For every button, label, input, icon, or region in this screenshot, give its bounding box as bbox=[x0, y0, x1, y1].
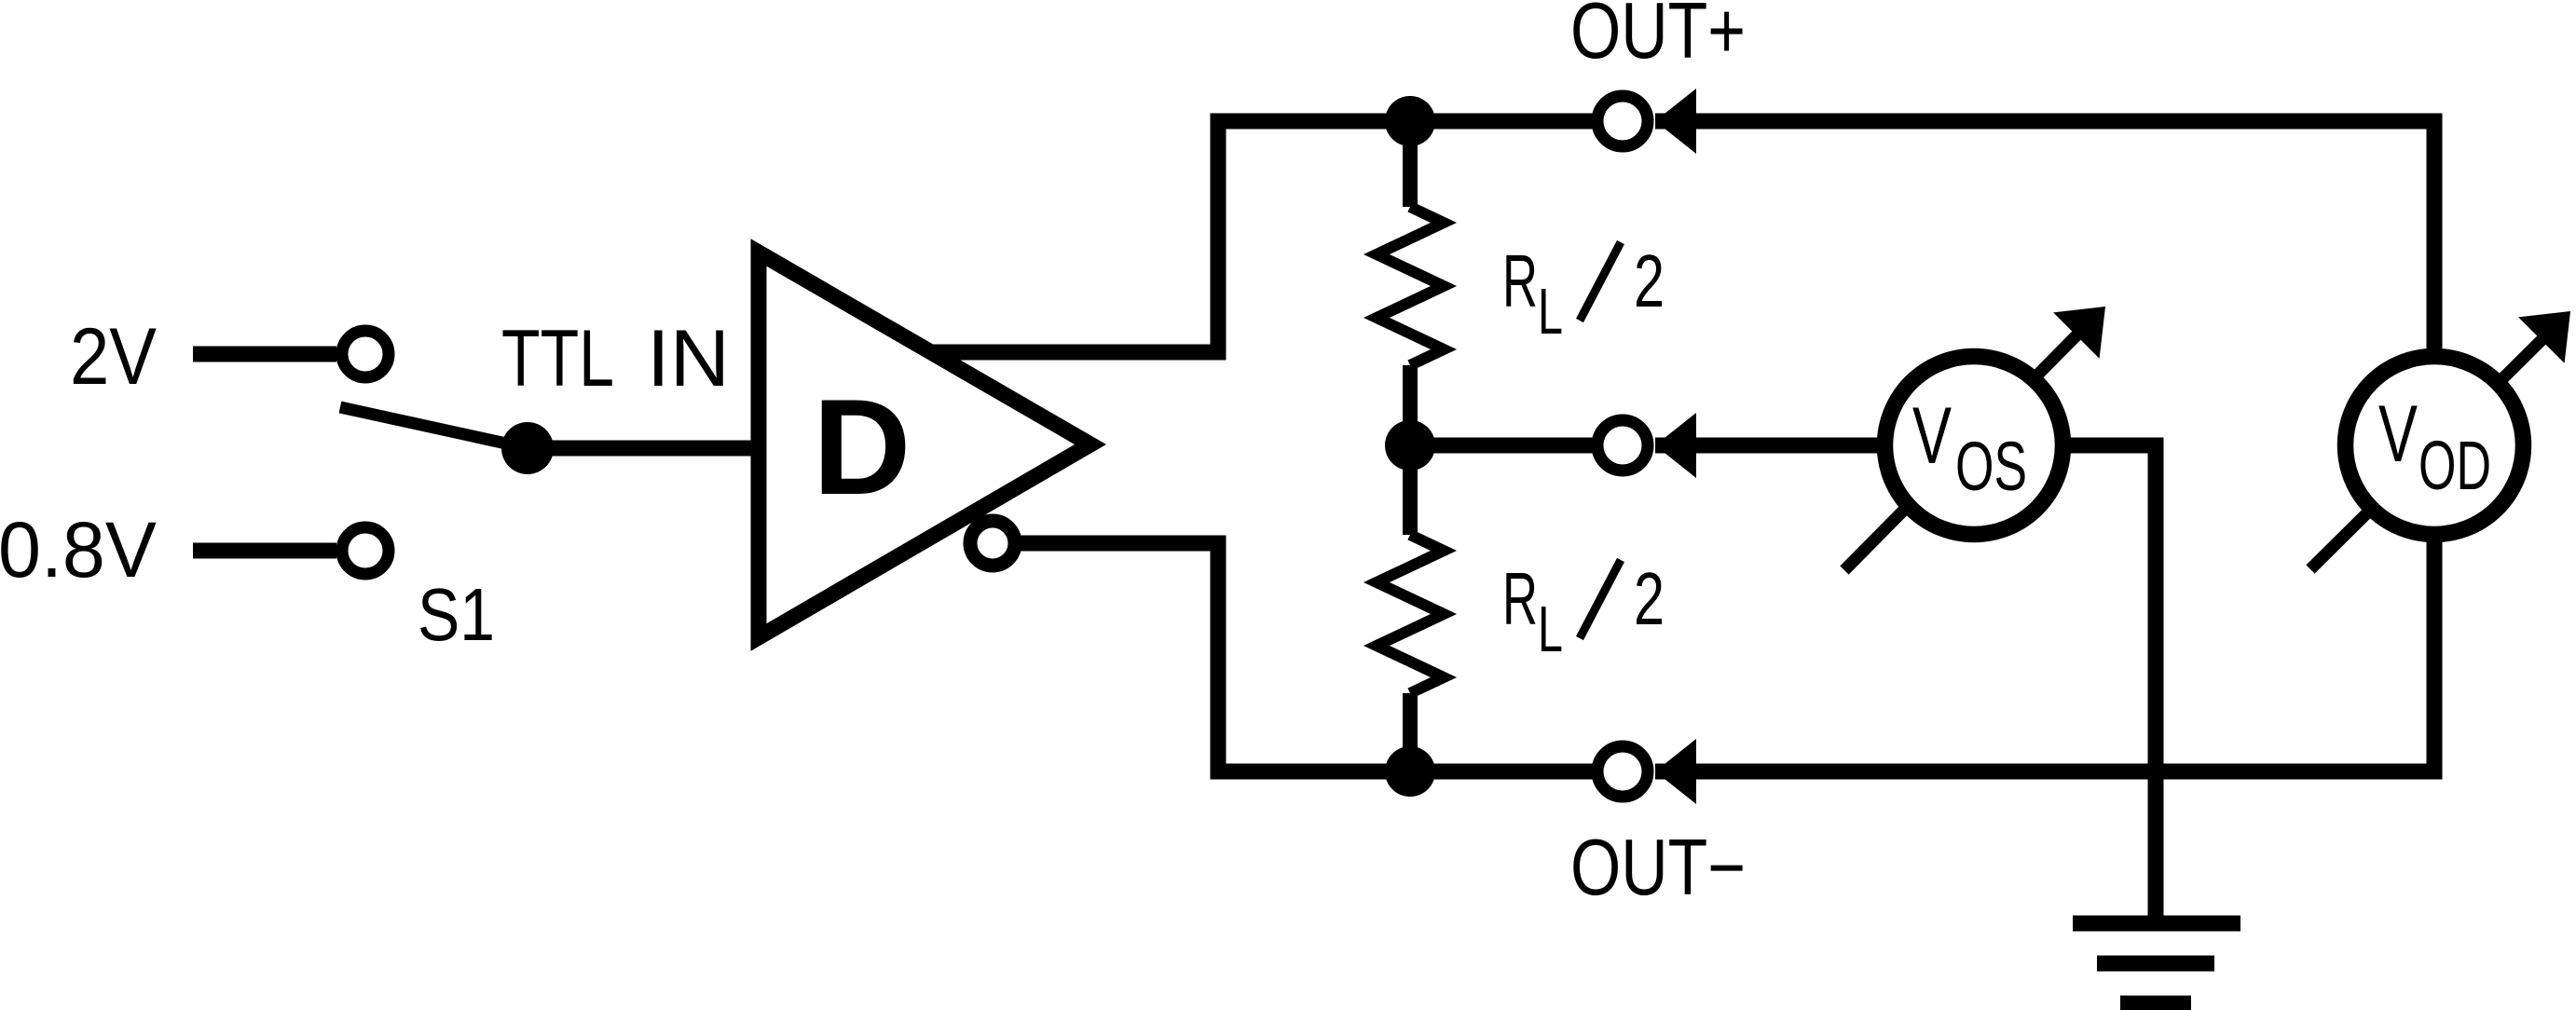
resistor RL/2 upper lead (bottom) bbox=[1403, 365, 1418, 445]
resistor RL/2 lower lead (top) bbox=[1403, 445, 1418, 535]
VOS meter circle bbox=[1885, 357, 2063, 535]
label VOS bbox=[1912, 391, 2027, 505]
svg-text:R: R bbox=[1502, 557, 1538, 640]
svg-text:2: 2 bbox=[1634, 557, 1665, 640]
wire driver noninverting output to top rail riser bbox=[927, 121, 1596, 352]
arrowhead into center tap probe bbox=[1655, 413, 1696, 478]
wire center probe to VOS meter bbox=[1655, 438, 1892, 454]
VOD meter needle diagonal bbox=[2310, 335, 2546, 569]
OUT- probe terminal circle bbox=[1597, 746, 1648, 797]
arrowhead into OUT+ bbox=[1655, 89, 1696, 154]
switch S1 pole junction dot bbox=[501, 422, 554, 474]
svg-text:D: D bbox=[813, 371, 911, 523]
svg-text:IN: IN bbox=[647, 314, 730, 403]
svg-text:OUT−: OUT− bbox=[1570, 824, 1746, 912]
svg-text:0.8V: 0.8V bbox=[0, 506, 157, 594]
resistor RL/2 lower lead (bottom) bbox=[1403, 693, 1418, 779]
arrowhead into OUT- bbox=[1655, 739, 1696, 804]
resistor RL/2 upper lead (top) bbox=[1403, 114, 1418, 207]
node junction dot bottom (OUT- node) bbox=[1385, 746, 1435, 797]
center tap probe terminal circle bbox=[1597, 420, 1648, 471]
wire bottom rail (arrow to VOD bottom lead) bbox=[1655, 535, 2434, 771]
switch S1 arm bbox=[340, 407, 528, 448]
label VOD bbox=[2378, 389, 2491, 504]
svg-text:L: L bbox=[1538, 275, 1563, 348]
resistor RL/2 lower zigzag bbox=[1377, 535, 1444, 693]
arrowhead of VOD needle bbox=[2518, 311, 2570, 363]
arrowhead of VOS needle bbox=[2053, 307, 2105, 359]
wire VOS meter to ground tap bbox=[2060, 445, 2156, 923]
svg-text:R: R bbox=[1502, 239, 1538, 322]
svg-text:L: L bbox=[1538, 593, 1563, 665]
VOS meter needle diagonal bbox=[1844, 331, 2081, 570]
VOD meter circle bbox=[2346, 357, 2524, 535]
switch terminal circle (0.8V throw) bbox=[342, 527, 389, 574]
wire 0.8V lead bbox=[193, 543, 336, 559]
resistor RL/2 upper zigzag bbox=[1377, 207, 1444, 365]
wire driver inverting output to bottom rail riser bbox=[1016, 543, 1596, 771]
node junction dot top (OUT+ node) bbox=[1385, 96, 1435, 146]
label RL/2 lower bbox=[1502, 557, 1665, 665]
svg-text:S1: S1 bbox=[418, 573, 495, 656]
driver D triangle bbox=[759, 252, 1090, 637]
wire middle tap to center probe bbox=[1410, 438, 1596, 454]
svg-text:2: 2 bbox=[1634, 239, 1665, 322]
svg-text:V: V bbox=[1912, 391, 1952, 481]
wire TTL IN (switch pole to driver input) bbox=[528, 441, 759, 457]
switch terminal circle (2V throw) bbox=[342, 331, 389, 377]
node junction dot middle (center tap) bbox=[1385, 420, 1435, 471]
ground symbol bbox=[2073, 923, 2240, 1003]
svg-text:2V: 2V bbox=[70, 312, 157, 402]
svg-text:OS: OS bbox=[1955, 428, 2027, 505]
svg-text:V: V bbox=[2378, 389, 2418, 479]
svg-text:OUT+: OUT+ bbox=[1570, 0, 1746, 75]
svg-text:OD: OD bbox=[2418, 427, 2491, 504]
wire 2V lead bbox=[193, 347, 336, 362]
label RL/2 upper bbox=[1502, 239, 1665, 348]
OUT+ probe terminal circle bbox=[1597, 96, 1648, 146]
svg-text:TTL: TTL bbox=[501, 314, 614, 403]
inversion bubble on driver output bbox=[970, 521, 1015, 566]
wire top rail (arrow to VOD top lead) bbox=[1655, 121, 2434, 356]
